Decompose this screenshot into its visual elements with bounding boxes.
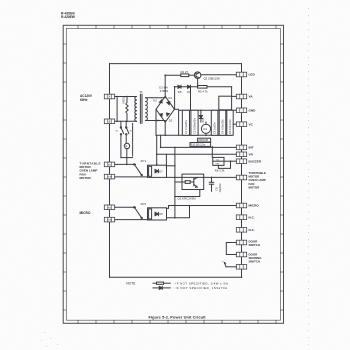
svg-text:C3 1u/50v: C3 1u/50v: [213, 121, 217, 134]
svg-text:1YB31: 1YB31: [160, 89, 169, 93]
wire secondary bottom to bridge: [152, 121, 165, 123]
wire to VC terminal: [233, 123, 236, 125]
svg-text:S: S: [125, 144, 127, 148]
thermal cutout S circle: [124, 143, 129, 163]
riser x156.7: [156, 135, 158, 165]
wire secondary top to bridge: [152, 96, 165, 97]
model number text top-left: [61, 12, 76, 20]
svg-text:NO: NO: [108, 207, 112, 209]
resistor R4 27: [181, 70, 189, 77]
svg-text:C1 0.1u/50v: C1 0.1u/50v: [184, 119, 188, 134]
junction dots top row: [164, 74, 198, 87]
riser x160.6: [160, 135, 162, 147]
svg-text:C4 100u/16v: C4 100u/16v: [221, 119, 225, 134]
wire D6 row to VA: [231, 87, 233, 97]
relay RY2 coil: [141, 202, 167, 220]
capacitor C6 10u/50v: [209, 177, 222, 192]
wire bridge top corner up: [164, 75, 166, 96]
door sensing switch: [222, 260, 236, 267]
zener diode ZD1: [199, 110, 205, 122]
svg-text:R-420EW: R-420EW: [61, 15, 76, 19]
svg-text:D1: D1: [169, 96, 173, 100]
riser C2 to D6: [190, 87, 192, 111]
junction dots PSU: [164, 86, 206, 136]
wire D5 D6 row: [175, 86, 232, 88]
svg-text:VRS1: VRS1: [122, 96, 126, 104]
terminal A left y96.5: [104, 94, 114, 99]
svg-text:S1: S1: [116, 131, 118, 133]
wire Q3 emitter out: [175, 190, 200, 197]
wire VR row: [157, 153, 237, 155]
svg-text:MICRO: MICRO: [80, 211, 91, 215]
terminal right MICRO y205.5: [236, 203, 259, 208]
wire R4 to Q2: [189, 74, 195, 76]
svg-text:R9 150 1/2w: R9 150 1/2w: [228, 119, 232, 134]
terminal right pin y177.5: [236, 175, 246, 180]
interlock switch S1: [120, 121, 123, 157]
terminal NO left y207.3: [104, 205, 114, 210]
svg-text:RY1: RY1: [141, 159, 147, 163]
wire interlock bottom: [121, 157, 133, 159]
svg-text:R4 27: R4 27: [181, 70, 189, 74]
wire A to transformer: [115, 96, 137, 98]
svg-text:D2: D2: [169, 118, 173, 122]
terminal right pin y266.8: [236, 265, 246, 270]
wire GND rail: [179, 109, 237, 111]
svg-text:NOTE: NOTE: [126, 281, 136, 285]
terminal COM left y176.6: [104, 174, 114, 179]
terminal right BUZZER y161.2: [236, 159, 262, 164]
terminal right INT y147.4: [236, 145, 253, 150]
label MICRO (left): [80, 211, 91, 215]
terminal right VA y96.5: [236, 94, 253, 99]
terminal right N.C. y229.8: [236, 228, 255, 233]
frame tick marks: [63, 25, 283, 323]
NOTE legend: [126, 281, 228, 290]
component box near VA: [219, 96, 232, 110]
label TURNTABLE MOTOR OVEN LAMP FAN MOTOR (right): [249, 171, 267, 189]
label AC120V 60Hz: [80, 94, 93, 102]
terminal NO left y164.4: [104, 162, 114, 167]
junction interlock to NO1: [126, 164, 158, 166]
svg-text:60Hz: 60Hz: [80, 98, 88, 102]
svg-text:D5: D5: [178, 90, 182, 94]
wire right connector line: [241, 64, 243, 278]
label DOOR SENSING SWITCH: [249, 253, 263, 264]
diode D6: [187, 85, 191, 94]
svg-text:DC: DC: [216, 160, 220, 162]
svg-text:R6 3.3k: R6 3.3k: [215, 169, 225, 173]
svg-text:R10 560 1/2w: R10 560 1/2w: [191, 145, 206, 147]
interlock switch S2: [126, 121, 129, 143]
svg-text:10u/50v: 10u/50v: [218, 183, 222, 193]
terminal right N.C. y217.2: [236, 215, 255, 220]
svg-text:R5 4.7k: R5 4.7k: [198, 89, 208, 93]
terminal right GND y110.3: [236, 108, 256, 113]
IC1 regulator circle: [198, 122, 211, 142]
buzzer SP1: [213, 157, 231, 172]
wire COM1 row: [115, 176, 148, 178]
svg-text:C6: C6: [214, 187, 218, 191]
wire bridge left corner down: [155, 109, 157, 135]
resistor R9: [227, 110, 233, 135]
relay contact RY2: [134, 207, 143, 219]
interlock switch tiny labels: [116, 131, 132, 133]
capacitor C3: [211, 110, 218, 135]
transistor Q2 2SB1238: [194, 72, 220, 87]
wire R4 row: [165, 74, 181, 76]
terminal right pin y254.5: [236, 252, 246, 257]
svg-text:VR: VR: [249, 153, 254, 157]
capacitor C4: [219, 110, 226, 135]
svg-text:ZD1: ZD1: [202, 117, 205, 122]
transistor Q3 KRC243M: [175, 174, 204, 201]
svg-text:RY2: RY2: [141, 202, 147, 206]
riser x166.4: [165, 154, 167, 167]
mechanical link dashed: [132, 124, 134, 157]
wire bridge bottom corner down: [164, 122, 166, 135]
diode D5: [178, 85, 182, 94]
wire NO1 row: [115, 163, 136, 165]
label TURNTABLE MOTOR OVEN LAMP FAN MOTOR (left): [80, 162, 101, 180]
wire Q2 collector to LED terminal: [201, 74, 236, 76]
svg-text:COM: COM: [107, 177, 112, 179]
svg-text:: IF NOT SPECIFIED, 1/4W ± 5%: : IF NOT SPECIFIED, 1/4W ± 5%: [173, 281, 228, 285]
wire turntable row long: [167, 176, 237, 178]
riser x174.9: [174, 147, 176, 217]
svg-text:INT: INT: [249, 146, 254, 150]
capacitor C2: [191, 110, 198, 135]
page frame outer border: [63, 25, 283, 323]
terminal right pin y242.5: [236, 240, 246, 245]
svg-text:N.C.: N.C.: [249, 228, 255, 232]
terminal COM left y219.6: [104, 217, 114, 222]
svg-text:MOTOR: MOTOR: [80, 176, 92, 180]
relay RY1 coil: [141, 159, 167, 177]
terminal B left y121.3: [104, 119, 114, 124]
svg-text:2SB1238: 2SB1238: [198, 140, 208, 142]
wire top bus: [110, 63, 242, 65]
svg-text:Q2 2SB1238: Q2 2SB1238: [204, 77, 220, 81]
capacitor C1: [182, 110, 189, 135]
svg-text:C2 1000u/35v: C2 1000u/35v: [193, 117, 197, 134]
resistor R5 4.7k: [198, 86, 209, 94]
svg-text:SWITCH: SWITCH: [249, 243, 260, 247]
svg-text:VC: VC: [249, 122, 254, 126]
page frame inner border: [66, 28, 280, 320]
caps group left edge: [178, 110, 180, 135]
svg-text:Q3 KRC243M: Q3 KRC243M: [178, 197, 197, 201]
svg-text:D3: D3: [153, 99, 157, 103]
wire INT row: [161, 146, 237, 148]
door switch loop: [226, 243, 236, 255]
wire COM2 row: [115, 219, 148, 221]
terminal right LED y74.5: [236, 72, 255, 77]
wire bottom bus: [110, 276, 242, 278]
wire BUZZER row: [224, 160, 236, 162]
label DOOR SWITCH: [249, 239, 260, 247]
wire PSU bottom rail: [156, 134, 232, 136]
svg-text:LED: LED: [249, 73, 256, 77]
svg-text:GND: GND: [249, 109, 257, 113]
svg-text:COM: COM: [107, 220, 112, 222]
wire NO2 row: [115, 206, 136, 208]
svg-text:BUZZER: BUZZER: [249, 159, 262, 163]
transformer T1: [135, 90, 152, 123]
svg-text:SWITCH: SWITCH: [249, 260, 260, 264]
riser x212 buzzer: [211, 146, 213, 157]
svg-text:Figure 5-2. Power Unit Circuit: Figure 5-2. Power Unit Circuit: [149, 314, 207, 319]
wire RY2 bottom loop: [167, 206, 190, 218]
svg-text:VA: VA: [249, 95, 254, 99]
varistor VRS1: [122, 96, 129, 121]
scan artifact dots: [41, 8, 309, 347]
junction dots AC: [116, 96, 128, 122]
svg-text:: IF NOT SPECIFIED, 1SS270A: : IF NOT SPECIFIED, 1SS270A: [173, 286, 227, 290]
svg-text:MICRO: MICRO: [249, 204, 260, 208]
svg-text:D8: D8: [159, 212, 163, 216]
wire B to transformer: [115, 120, 137, 122]
wire RY1 to risers: [167, 165, 175, 167]
wire vertical x117: [116, 97, 118, 122]
bridge rectifier D1-D4 1YB31: [153, 86, 174, 123]
wire to VA terminal: [232, 95, 237, 97]
svg-text:NO: NO: [108, 165, 112, 167]
terminal right VC y124.2: [236, 122, 253, 127]
wire MICRO row: [167, 206, 237, 209]
svg-text:D7: D7: [159, 169, 163, 173]
wire bridge right corner riser: [174, 87, 176, 110]
svg-text:IC1: IC1: [203, 128, 208, 131]
wire left bus: [109, 64, 111, 278]
svg-text:D4: D4: [156, 118, 160, 122]
svg-text:S2: S2: [130, 131, 132, 133]
relay contact RY1: [134, 164, 143, 176]
terminal right VR y154.3: [236, 152, 253, 157]
svg-text:MOTOR: MOTOR: [249, 185, 261, 189]
svg-text:T1: T1: [139, 90, 143, 94]
svg-text:*: *: [222, 260, 223, 264]
svg-text:N.C.: N.C.: [249, 215, 255, 219]
resistor R10 560 1/2W boxed label: [190, 143, 211, 147]
